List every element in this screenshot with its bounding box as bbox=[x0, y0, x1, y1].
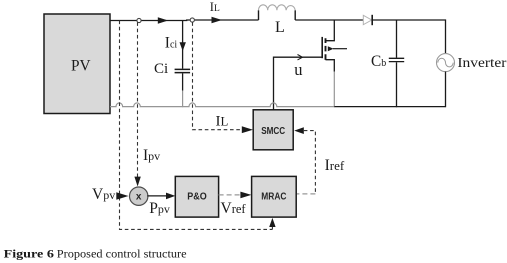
svg-text:Proposed control structure: Proposed control structure bbox=[57, 249, 187, 261]
Iref gray dashed from MRAC right edge bbox=[297, 193, 316, 195]
svg-text:Figure 6: Figure 6 bbox=[4, 249, 55, 261]
P&O block bbox=[175, 176, 218, 217]
arrow into SMCC left bbox=[242, 126, 253, 133]
svg-text:Ici: Ici bbox=[165, 35, 178, 52]
capacitor Ci bbox=[175, 21, 191, 108]
arrow into P&O bbox=[166, 193, 175, 200]
bottom bus black right part bbox=[334, 106, 445, 108]
AC source inverter symbol bbox=[437, 54, 455, 108]
gate wire from SMCC (u signal) bbox=[274, 57, 323, 110]
arrow into MRAC left bbox=[240, 192, 251, 199]
arrow into multiplier top bbox=[134, 177, 140, 187]
svg-text:PV: PV bbox=[71, 57, 91, 74]
svg-text:IL: IL bbox=[210, 0, 220, 14]
wire top rail PV to inductor bbox=[110, 19, 259, 22]
arrow IL on top rail bbox=[212, 17, 223, 23]
svg-text:SMCC: SMCC bbox=[261, 126, 285, 137]
wire source to bus (gray) bbox=[333, 72, 335, 108]
svg-text:Cb: Cb bbox=[371, 53, 386, 70]
svg-text:Vpv: Vpv bbox=[92, 186, 115, 203]
wire top rail inductor to diode bbox=[295, 19, 363, 21]
node circle Ipv sensor bbox=[137, 18, 141, 22]
svg-text:u: u bbox=[294, 60, 302, 79]
svg-text:IL: IL bbox=[216, 114, 229, 130]
SMCC block bbox=[253, 110, 293, 150]
Vpv dashed feedback from PV terminal down and around bbox=[120, 21, 273, 230]
svg-text:Ci: Ci bbox=[154, 61, 168, 77]
svg-text:L: L bbox=[275, 19, 285, 36]
PV source box bbox=[44, 14, 110, 114]
Ipv dashed wire from sensor to multiplier bbox=[137, 22, 139, 177]
arrow into MRAC bottom bbox=[269, 218, 275, 227]
arrow chevron on gate wire bbox=[298, 55, 303, 60]
wire top rail diode to right corner and down to inverter bbox=[372, 20, 445, 54]
diode D1 bbox=[363, 15, 372, 25]
arrow Vpv into multiplier bbox=[116, 192, 128, 199]
IL feedback dashed wire to SMCC bbox=[193, 22, 242, 129]
transistor Q1 MOSFET bbox=[322, 20, 347, 72]
multiplier node x bbox=[130, 187, 148, 205]
node circle IL sensor bbox=[190, 18, 194, 22]
Vpv dashed rise into MRAC bottom bbox=[271, 227, 273, 230]
svg-text:Ppv: Ppv bbox=[149, 200, 170, 217]
svg-text:Ipv: Ipv bbox=[143, 147, 160, 164]
wire multiplier to P&O bbox=[147, 195, 166, 197]
svg-text:Iref: Iref bbox=[325, 157, 345, 174]
arrow current direction after PV bbox=[158, 17, 168, 24]
MRAC block bbox=[252, 176, 297, 217]
svg-text:x: x bbox=[136, 191, 142, 202]
arrow into SMCC right bbox=[294, 127, 304, 134]
svg-text:MRAC: MRAC bbox=[261, 192, 286, 203]
svg-text:P&O: P&O bbox=[187, 192, 207, 203]
Iref dashed wire from MRAC up to SMCC bbox=[304, 131, 316, 194]
svg-text:Inverter: Inverter bbox=[457, 56, 506, 71]
inductor L bbox=[259, 5, 296, 36]
Vref gray dashed from P&O to MRAC bbox=[219, 194, 241, 196]
svg-text:Vref: Vref bbox=[221, 200, 247, 217]
capacitor Cb bbox=[389, 20, 404, 107]
bottom bus gray with hops bbox=[110, 103, 334, 107]
